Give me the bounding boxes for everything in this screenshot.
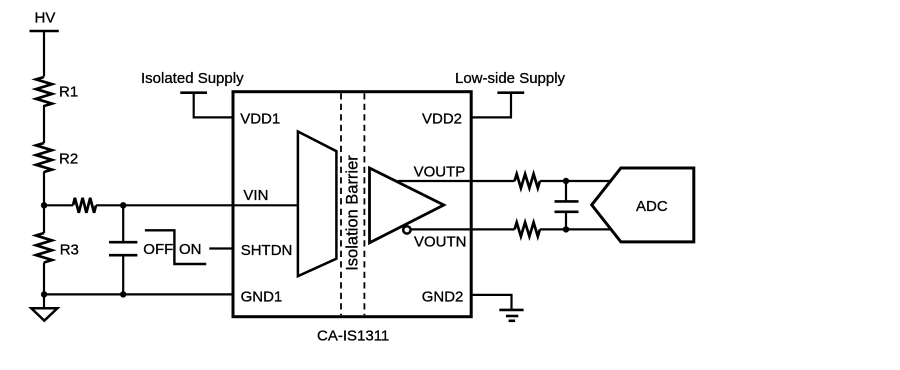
- ADC block: [592, 168, 694, 242]
- svg-text:GND1: GND1: [241, 288, 283, 305]
- svg-text:R3: R3: [60, 241, 79, 258]
- resistor Rin (series input): [73, 198, 96, 213]
- svg-text:Low-side Supply: Low-side Supply: [455, 70, 566, 87]
- svg-text:HV: HV: [35, 10, 56, 27]
- wire VDD1: [194, 93, 232, 118]
- svg-text:Isolated Supply: Isolated Supply: [141, 70, 244, 87]
- svg-text:R1: R1: [59, 83, 78, 100]
- wire VIN left segment: [44, 204, 73, 206]
- supply bar VDD1: [180, 91, 207, 94]
- wire VDD2: [471, 93, 511, 118]
- op-amp output triangle: [370, 168, 444, 243]
- ground GND symbol (triangle): [31, 308, 57, 320]
- svg-text:VIN: VIN: [243, 187, 268, 204]
- wire VOUTN inside to resistor: [411, 228, 515, 230]
- resistor R3: [36, 233, 52, 263]
- HV supply bar: [30, 30, 59, 33]
- node junction dot cap-VIN: [120, 202, 126, 208]
- isolation barrier dashed line right: [363, 93, 365, 315]
- svg-text:CA-IS1311: CA-IS1311: [317, 328, 389, 345]
- svg-text:OFF: OFF: [143, 241, 173, 258]
- svg-text:R2: R2: [59, 150, 78, 167]
- switch OFF/ON step symbol: [145, 230, 206, 264]
- svg-text:ON: ON: [179, 241, 202, 258]
- resistor Rp (VOUTP series): [515, 174, 540, 188]
- svg-text:GND2: GND2: [422, 288, 464, 305]
- capacitor C1 top stem: [122, 205, 124, 242]
- wire GND2: [471, 295, 511, 310]
- isolation barrier dashed line left: [340, 93, 342, 315]
- ground GND2 symbol (3 bars): [499, 309, 523, 312]
- wire VOUTP inside to resistor: [398, 180, 515, 182]
- node junction dot rail-GND: [41, 291, 47, 297]
- node junction dot VOUTN-cap: [563, 226, 569, 232]
- node junction dot rail-VIN: [41, 202, 47, 208]
- wire VOUTN to ADC: [540, 228, 611, 230]
- svg-text:VDD1: VDD1: [240, 110, 280, 127]
- capacitor C1 bottom stem: [122, 255, 124, 294]
- capacitor C2 bottom stem: [565, 212, 567, 230]
- modulator trapezoid: [298, 132, 337, 277]
- wire SHTDN: [209, 247, 231, 249]
- wire between R1 and R2: [43, 105, 45, 143]
- supply bar VDD2: [497, 91, 524, 94]
- svg-text:ADC: ADC: [636, 198, 668, 215]
- wire between R2 and R3: [43, 172, 45, 234]
- wire VIN to trapezoid: [96, 204, 298, 206]
- IC U1 CA-IS1311 box: [233, 92, 471, 317]
- svg-text:VDD2: VDD2: [422, 111, 462, 128]
- inverter bubble on VOUTN: [403, 226, 410, 233]
- wire VOUTP to ADC: [540, 180, 611, 182]
- svg-text:SHTDN: SHTDN: [241, 242, 293, 259]
- node junction dot VOUTP-cap: [563, 178, 569, 184]
- capacitor C2 top stem: [565, 181, 567, 201]
- resistor Rn (VOUTN series): [515, 222, 540, 236]
- node junction dot cap-GND: [120, 291, 126, 297]
- svg-text:VOUTP: VOUTP: [414, 164, 466, 181]
- resistor R2: [36, 143, 52, 172]
- capacitor C1 plates: [109, 241, 137, 244]
- resistor R1: [36, 77, 52, 106]
- wire HV rail top: [43, 31, 45, 77]
- svg-text:Isolation Barrier: Isolation Barrier: [344, 155, 362, 271]
- wire GND1 bottom: [44, 293, 232, 295]
- svg-text:VOUTN: VOUTN: [414, 234, 467, 251]
- capacitor C2 plates: [555, 200, 579, 203]
- wire R3 to ground: [43, 263, 45, 309]
